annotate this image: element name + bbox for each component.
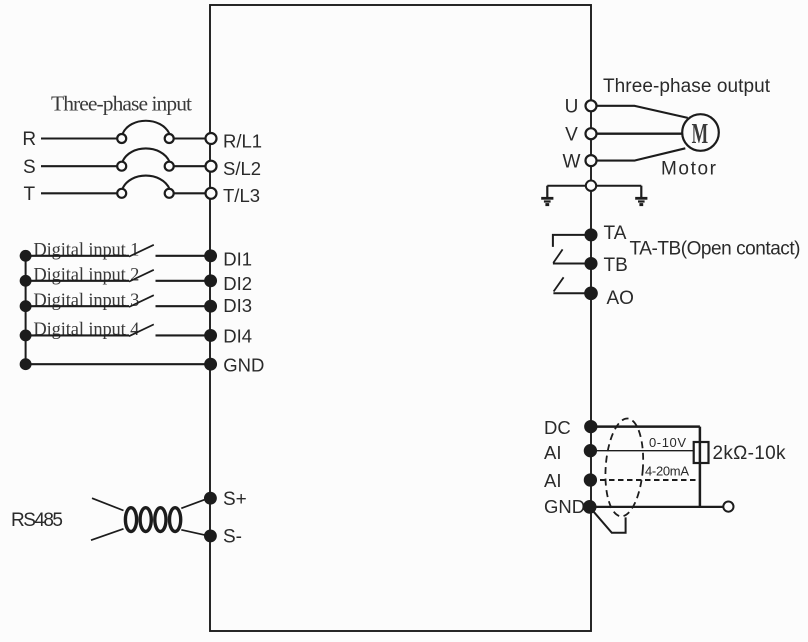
svg-text:S/L2: S/L2	[223, 158, 261, 179]
wire R left	[41, 137, 117, 139]
choke coil L1	[125, 508, 180, 532]
terminal PE	[586, 181, 596, 191]
terminal TA	[586, 229, 597, 240]
svg-text:Motor: Motor	[661, 158, 717, 179]
terminal W	[586, 155, 597, 166]
switch DI4	[129, 324, 154, 336]
wire GND	[26, 363, 206, 365]
svg-text:TA: TA	[604, 223, 627, 244]
terminal DC	[585, 421, 596, 432]
svg-text:DI3: DI3	[223, 295, 252, 316]
digital input bus wire	[25, 256, 27, 364]
terminal T/L3	[206, 188, 217, 199]
wire U to motor	[596, 106, 687, 118]
terminal GND left side	[205, 359, 216, 370]
RS485 lead lower-right	[181, 530, 205, 535]
svg-text:RS485: RS485	[11, 510, 63, 531]
svg-text:DI2: DI2	[223, 273, 252, 294]
node GND left	[21, 359, 31, 369]
svg-text:T: T	[23, 184, 35, 205]
cable shield ellipse	[602, 417, 646, 517]
svg-text:AI: AI	[544, 442, 561, 463]
RS485 lead upper-left	[92, 498, 124, 510]
svg-text:R/L1: R/L1	[223, 130, 262, 151]
wire DI1 right	[156, 255, 206, 257]
wire DI1 left	[26, 255, 129, 257]
relay contact arm TB	[553, 249, 562, 263]
svg-text:AO: AO	[607, 288, 634, 309]
terminal AI lower	[585, 474, 596, 485]
wire DC top	[591, 425, 700, 428]
svg-text:0-10V: 0-10V	[649, 435, 686, 450]
wire DI3 right	[156, 305, 206, 307]
terminal S/L2	[206, 161, 217, 172]
wire T left	[41, 192, 117, 194]
svg-text:Digital input 2: Digital input 2	[33, 265, 139, 285]
external terminal circle	[723, 502, 733, 512]
wire R right	[174, 137, 206, 139]
wire AI 0-10V	[591, 450, 694, 452]
terminal V	[586, 128, 597, 139]
svg-text:GND: GND	[544, 496, 585, 517]
breaker T	[117, 176, 174, 198]
svg-text:DI4: DI4	[223, 325, 252, 346]
terminal AI upper	[585, 445, 596, 456]
svg-text:S-: S-	[223, 527, 242, 548]
wire S right	[174, 165, 206, 167]
svg-text:DI1: DI1	[223, 249, 252, 270]
ground wire horizontal	[547, 185, 641, 187]
svg-text:Digital input 1: Digital input 1	[33, 240, 139, 260]
relay contact arm AO	[554, 277, 564, 291]
terminal DI1	[205, 250, 216, 261]
terminal AO	[585, 288, 597, 300]
wire potentiometer right vertical	[699, 427, 702, 507]
svg-text:Digital input 4: Digital input 4	[33, 320, 139, 340]
svg-text:AI: AI	[544, 470, 561, 491]
wire TA with stub	[553, 235, 591, 247]
wire DI2 left	[26, 280, 129, 282]
wire DI4 right	[156, 334, 206, 336]
switch DI2	[129, 270, 154, 282]
potentiometer body	[694, 442, 709, 463]
wire DI3 left	[26, 305, 129, 307]
RS485 lead lower-left	[91, 529, 124, 540]
wire V to motor	[596, 132, 682, 134]
node DI3 left	[21, 301, 31, 311]
terminal R/L1	[206, 133, 217, 144]
inverter box	[210, 5, 591, 631]
wire DI4 left	[26, 334, 129, 336]
terminal DI3	[205, 301, 216, 312]
wire AI 4-20mA dashed	[591, 479, 696, 481]
svg-text:GND: GND	[223, 355, 264, 376]
svg-text:TB: TB	[604, 255, 628, 276]
switch DI1	[129, 245, 154, 257]
RS485 lead upper-right	[181, 499, 205, 508]
terminal TB	[586, 258, 597, 269]
svg-text:S+: S+	[223, 489, 247, 510]
terminal U	[586, 100, 597, 111]
wire TB	[553, 263, 591, 265]
node DI4 left	[21, 331, 31, 341]
wire AO	[553, 292, 591, 294]
wire W to motor	[596, 148, 685, 160]
svg-text:2kΩ-10k: 2kΩ-10k	[713, 443, 787, 464]
terminal DI2	[205, 275, 216, 286]
breaker R	[117, 121, 174, 143]
svg-text:U: U	[565, 97, 579, 118]
terminal S-	[205, 531, 216, 542]
wire GND to external	[591, 506, 723, 508]
svg-text:V: V	[565, 124, 578, 145]
node DI2 left	[21, 276, 31, 286]
svg-text:W: W	[563, 151, 581, 172]
node DI1 left	[21, 251, 31, 261]
wire DI2 right	[156, 280, 206, 282]
breaker S	[117, 148, 174, 170]
shield drain wire	[592, 510, 626, 533]
svg-text:M: M	[692, 119, 709, 150]
ground symbol left	[541, 186, 553, 205]
wire T right	[174, 192, 206, 194]
switch DI3	[129, 295, 154, 307]
svg-text:S: S	[23, 157, 36, 178]
wire S left	[41, 165, 117, 167]
svg-text:Three-phase output: Three-phase output	[603, 76, 771, 97]
svg-text:4-20mA: 4-20mA	[645, 464, 689, 479]
svg-text:DC: DC	[544, 417, 571, 438]
svg-text:T/L3: T/L3	[223, 185, 260, 206]
svg-text:Digital input 3: Digital input 3	[33, 291, 139, 311]
terminal GND right	[584, 501, 596, 513]
ground symbol right	[635, 186, 647, 205]
svg-text:R: R	[22, 129, 36, 150]
terminal S+	[205, 493, 216, 504]
motor M1 circle	[682, 114, 719, 151]
svg-text:Three-phase input: Three-phase input	[51, 92, 192, 116]
svg-text:TA-TB(Open contact): TA-TB(Open contact)	[630, 238, 801, 259]
terminal DI4	[205, 330, 216, 341]
